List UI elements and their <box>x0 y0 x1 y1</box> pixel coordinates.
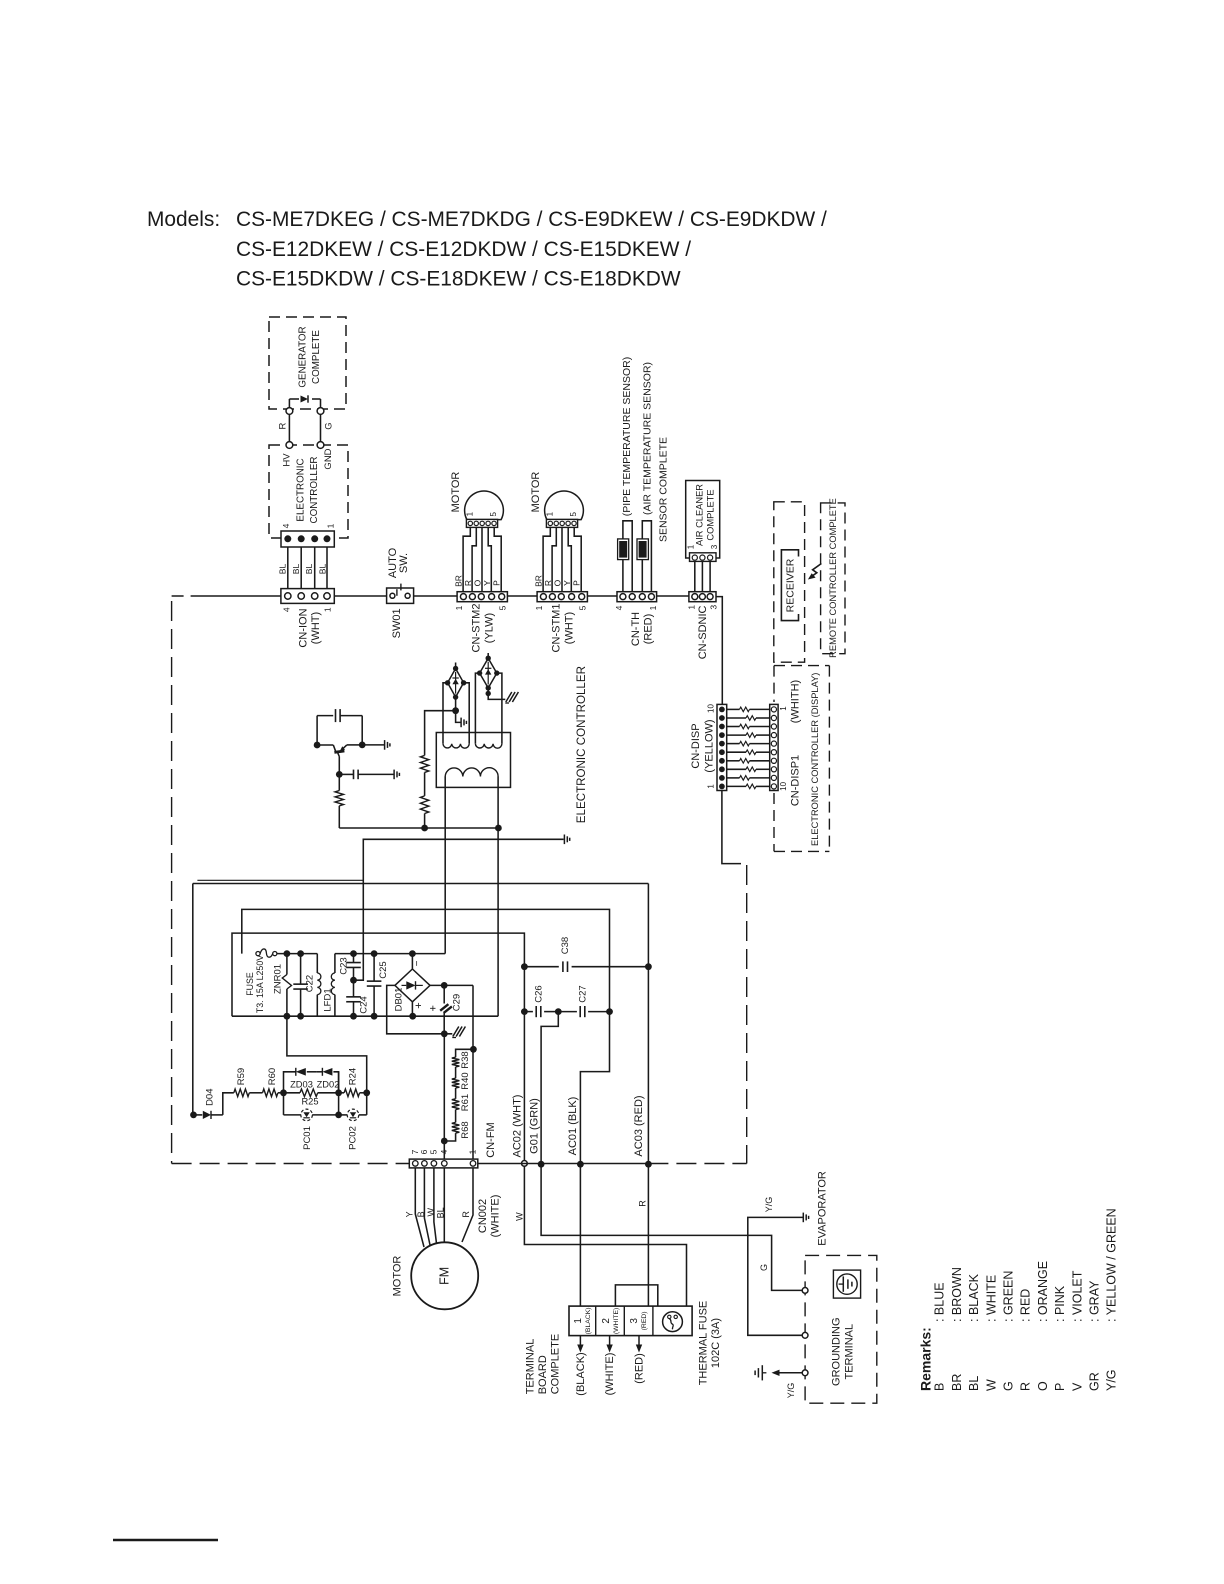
air thermistor body <box>637 539 648 560</box>
wire generator left pin <box>288 399 290 408</box>
svg-text:CN-DISP1: CN-DISP1 <box>789 755 801 806</box>
wire AC01 to terminal 1 <box>579 1164 581 1306</box>
svg-text:: VIOLET: : VIOLET <box>1070 1270 1084 1322</box>
svg-text:BL: BL <box>291 564 301 575</box>
svg-text:1: 1 <box>454 605 464 610</box>
diode bridge DB01 <box>411 954 413 969</box>
svg-text:R: R <box>1019 1382 1033 1391</box>
transformer primary winding left <box>443 744 469 748</box>
wire DB01 output down to CN-FM pin1 <box>472 985 474 1163</box>
svg-text:Y/G: Y/G <box>786 1383 796 1399</box>
svg-text:1: 1 <box>707 784 716 789</box>
wire AC03 R to terminal 3 <box>647 1164 649 1306</box>
svg-text:3: 3 <box>708 605 718 610</box>
wire DB01 negative input loop <box>387 985 453 1033</box>
svg-text:R: R <box>278 422 289 429</box>
svg-text:1: 1 <box>326 523 336 528</box>
svg-text:SENSOR COMPLETE: SENSOR COMPLETE <box>658 437 670 542</box>
svg-text:BL: BL <box>278 564 288 575</box>
svg-text:(WHT): (WHT) <box>310 612 322 644</box>
svg-text:(WHITE): (WHITE) <box>613 1308 620 1334</box>
electronic controller boundary dashed bottom edge right <box>648 1163 746 1165</box>
node A junction <box>280 1089 287 1096</box>
connector CN-FM <box>409 1159 478 1168</box>
svg-text:W: W <box>984 1379 998 1391</box>
svg-text:SW.: SW. <box>398 553 410 573</box>
node AC01 junction <box>577 1161 584 1168</box>
svg-text:CS-ME7DKEG / CS-ME7DKDG / CS-E: CS-ME7DKEG / CS-ME7DKDG / CS-E9DKEW / CS… <box>236 208 827 231</box>
wire CN-DISP bottom exit <box>722 791 741 864</box>
wire AC input upper <box>242 909 610 1011</box>
svg-text:: GRAY: : GRAY <box>1088 1280 1102 1322</box>
wire cap loop left leg <box>316 716 318 745</box>
terminal circle GND <box>317 442 324 449</box>
svg-text:: BROWN: : BROWN <box>950 1267 964 1322</box>
svg-text:ELECTRONIC CONTROLLER (DISPLAY: ELECTRONIC CONTROLLER (DISPLAY) <box>810 673 820 846</box>
capacitor feedback loop top <box>317 715 333 717</box>
terminal circle Y/G lower <box>802 1370 808 1376</box>
resistor R61 <box>452 1099 460 1110</box>
svg-text:CN-STM1: CN-STM1 <box>550 604 562 653</box>
lead arrow terminal 2 (WHITE) <box>609 1336 611 1348</box>
svg-text:(RED): (RED) <box>634 1353 646 1384</box>
svg-text:CS-E15DKDW / CS-E18DKEW / CS-E: CS-E15DKDW / CS-E18DKEW / CS-E18DKDW <box>236 268 681 291</box>
svg-text:R59: R59 <box>236 1068 247 1085</box>
svg-text:R: R <box>543 580 553 586</box>
wire Y/G to evaporator ground <box>748 1217 803 1335</box>
resistor below transistor <box>338 774 340 790</box>
svg-text:Y/G: Y/G <box>764 1197 774 1213</box>
wire G to grounding terminal <box>541 1164 802 1290</box>
svg-text:1: 1 <box>687 544 696 549</box>
main bus wire CN-STM1 to CN-TH <box>587 595 617 597</box>
svg-text:W: W <box>515 1212 525 1221</box>
wire cap loop right leg <box>361 716 363 745</box>
wire chain bottom to pin4 line <box>444 1133 455 1141</box>
svg-text:BOARD: BOARD <box>537 1355 549 1394</box>
terminal circle G <box>802 1288 808 1294</box>
diode inside generator (ionizer discharge) <box>289 398 299 400</box>
wire fan motor BL <box>443 1168 445 1243</box>
capacitor C24 <box>353 980 355 997</box>
svg-text:(BLACK): (BLACK) <box>575 1352 587 1395</box>
node G01 junction <box>538 1161 545 1168</box>
wire bridge2 left to winding <box>475 673 479 744</box>
pipe temperature sensor loop <box>623 521 632 592</box>
svg-text:AC03 (RED): AC03 (RED) <box>633 1095 645 1156</box>
wire BL pin4 <box>287 547 289 593</box>
wire motor pin3 O <box>561 527 563 591</box>
wire generator right pin <box>320 399 322 408</box>
ground (transistor emitter) <box>384 740 386 750</box>
ground (snubber) <box>563 835 565 845</box>
optocoupler LED PC01 <box>301 1109 313 1121</box>
wire node to ground stub <box>456 711 461 723</box>
wire secondary right leg <box>497 777 499 1017</box>
svg-text:P: P <box>1053 1383 1067 1391</box>
svg-text:R61: R61 <box>460 1094 471 1111</box>
svg-text:ZD02: ZD02 <box>317 1080 340 1090</box>
wire bridge1 left to winding <box>443 683 448 744</box>
svg-text:D04: D04 <box>204 1088 215 1105</box>
svg-text:: RED: : RED <box>1019 1289 1033 1322</box>
wire pcb left edge to D04 <box>190 1112 197 1119</box>
wire W to thermal fuse <box>524 1166 686 1320</box>
wire AC02 (WHT) <box>523 967 525 1161</box>
resistor chain feed wire <box>456 1049 474 1057</box>
ground (bridge1 node) <box>460 718 462 728</box>
capacitor C26 <box>521 1008 528 1015</box>
resistor link wires CN-DISP to CN-DISP1 <box>727 708 740 710</box>
svg-text:Y/G: Y/G <box>1105 1369 1119 1391</box>
wire G01 (GRN) <box>541 1012 558 1165</box>
svg-text:Models:: Models: <box>147 208 220 231</box>
svg-text:+: + <box>413 1002 425 1008</box>
svg-text:1: 1 <box>648 605 658 610</box>
wireless signal arrow <box>811 564 822 578</box>
svg-text:: GREEN: : GREEN <box>1002 1271 1016 1322</box>
wire CN-SDNIC to display feed <box>716 597 722 705</box>
svg-text:(BLACK): (BLACK) <box>585 1307 592 1334</box>
svg-text:CN-SDNIC: CN-SDNIC <box>697 605 709 659</box>
ground (evaporator) <box>802 1213 804 1223</box>
svg-text:5: 5 <box>429 1149 439 1154</box>
svg-text:ELECTRONIC CONTROLLER: ELECTRONIC CONTROLLER <box>575 666 588 823</box>
svg-text:10: 10 <box>779 781 788 790</box>
terminal circle generator R <box>286 408 293 415</box>
svg-text:O: O <box>1036 1381 1050 1391</box>
svg-text:RECEIVER: RECEIVER <box>785 558 797 612</box>
generator complete dashed enclosure <box>269 317 346 409</box>
svg-text:R: R <box>463 580 473 586</box>
connector CN-ION (WHT) <box>281 589 334 604</box>
svg-text:C22: C22 <box>305 975 316 992</box>
wire fan motor W <box>434 1168 437 1244</box>
svg-text:LFD1: LFD1 <box>322 988 333 1011</box>
pcb outline left edge <box>192 884 194 1115</box>
footer rule <box>113 1539 218 1542</box>
svg-text:CN002: CN002 <box>477 1199 489 1233</box>
electronic controller display dashed enclosure <box>774 665 829 667</box>
svg-text:MOTOR: MOTOR <box>450 472 462 513</box>
wire thermal fuse to terminal 2 <box>615 1285 662 1320</box>
electronic controller boundary dashed left edge <box>171 601 173 1164</box>
main bus wire bottom solid segment <box>478 1163 649 1165</box>
svg-text:G01 (GRN): G01 (GRN) <box>528 1098 540 1154</box>
line filter choke LFD1 winding left <box>316 954 318 973</box>
svg-text:−: − <box>412 960 423 966</box>
wires air cleaner to CN-SDNIC <box>694 561 696 591</box>
terminal board complete box <box>569 1306 692 1336</box>
wire secondary left leg <box>444 777 446 954</box>
wire ground lead with arrow <box>777 1372 803 1374</box>
svg-text:1: 1 <box>546 511 555 516</box>
zener diode ZD03 <box>295 1068 297 1076</box>
node B junction <box>335 1089 342 1096</box>
terminal circle generator G <box>317 408 324 415</box>
wire fan motor Y <box>415 1168 424 1247</box>
svg-text:CN-TH: CN-TH <box>630 612 642 646</box>
air cleaner connector <box>690 553 717 562</box>
wire motor pin4 Y <box>568 527 571 591</box>
svg-text:AIR CLEANER: AIR CLEANER <box>694 484 704 546</box>
remote controller complete dashed enclosure <box>821 503 845 654</box>
wire motor pin5 P <box>494 527 501 591</box>
air cleaner complete box <box>686 481 720 559</box>
pipe thermistor body <box>618 539 629 560</box>
svg-text:BL: BL <box>304 564 314 575</box>
wire G generator to controller <box>320 414 322 441</box>
transformer primary winding right <box>475 744 502 748</box>
svg-text:(PIPE TEMPERATURE SENSOR): (PIPE TEMPERATURE SENSOR) <box>621 357 633 516</box>
capacitor C22 <box>300 954 302 985</box>
svg-text:5: 5 <box>578 605 588 610</box>
ground symbol box <box>833 1270 860 1298</box>
svg-text:1: 1 <box>534 605 544 610</box>
fuse FUSE T3.15A L250V <box>256 952 260 956</box>
resistor R40 <box>452 1078 460 1088</box>
wire motor pin4 Y <box>488 527 491 591</box>
svg-text:3: 3 <box>629 1318 640 1324</box>
svg-text:C27: C27 <box>577 985 588 1002</box>
capacitor at transistor base node <box>336 771 343 778</box>
svg-text:B: B <box>416 1211 426 1217</box>
wire C29 node down to CN-FM pin4 <box>443 1034 445 1164</box>
svg-text:3: 3 <box>710 544 719 549</box>
svg-text:(WHITE): (WHITE) <box>490 1195 502 1238</box>
svg-text:R24: R24 <box>348 1068 359 1085</box>
capacitor C38 <box>524 966 558 968</box>
svg-text:R38: R38 <box>460 1051 471 1068</box>
motor dome (CN-STM1) <box>545 491 584 520</box>
lead arrow terminal 1 (BLACK) <box>579 1336 581 1348</box>
wire motor pin5 P <box>574 527 581 591</box>
svg-text:O: O <box>473 579 483 586</box>
svg-text:BL: BL <box>436 1207 446 1218</box>
wire motor pin1 BR <box>463 527 470 591</box>
wire fan motor R <box>462 1168 473 1242</box>
wire AC03 (RED) <box>647 967 649 1164</box>
wire fan motor B <box>424 1168 430 1245</box>
wire oscillator to transformer taps <box>339 827 498 829</box>
svg-text:EVAPORATOR: EVAPORATOR <box>817 1171 829 1246</box>
pcb outline top edge <box>193 883 649 885</box>
svg-text:DB01: DB01 <box>393 988 404 1012</box>
optocoupler LED PC02 <box>339 1114 348 1116</box>
connector CN-ION board side <box>281 531 334 547</box>
svg-text:SW01: SW01 <box>391 608 403 638</box>
svg-text:R: R <box>461 1211 471 1218</box>
wire DB01 positive output <box>430 984 473 986</box>
connector CN-DISP1 (WHITH) <box>770 704 778 790</box>
svg-text:R60: R60 <box>267 1068 278 1085</box>
wire AC03 feed right edge <box>647 884 649 967</box>
terminal circle HV <box>286 442 293 449</box>
main bus wire CN-ION to SW01 <box>334 595 386 597</box>
svg-text:5: 5 <box>489 511 498 516</box>
resistor R59 <box>234 1089 250 1097</box>
main bus wire CN-STM2 to CN-STM1 <box>507 595 537 597</box>
svg-text:: WHITE: : WHITE <box>984 1275 998 1322</box>
diode D04 <box>203 1111 211 1119</box>
svg-text:1: 1 <box>466 511 475 516</box>
svg-text:: PINK: : PINK <box>1053 1285 1067 1322</box>
thermal fuse bulb <box>663 1312 683 1332</box>
svg-text:CN-DISP: CN-DISP <box>690 723 702 768</box>
svg-text:: YELLOW / GREEN: : YELLOW / GREEN <box>1105 1208 1119 1322</box>
wire bridge1 bottom node <box>455 697 457 711</box>
svg-text:V: V <box>1070 1382 1084 1391</box>
capacitor C27 <box>558 1011 577 1013</box>
svg-text:GROUNDING: GROUNDING <box>831 1317 843 1385</box>
diode bridge 2 (stepping motor driver) <box>487 653 489 658</box>
resistor R68 <box>452 1122 460 1133</box>
wire bridge1 right to winding <box>464 683 470 744</box>
bottom rail <box>232 1015 498 1017</box>
svg-text:BL: BL <box>317 564 327 575</box>
node AC02 open circle <box>522 1161 528 1167</box>
svg-text:(AIR TEMPERATURE SENSOR): (AIR TEMPERATURE SENSOR) <box>641 362 653 515</box>
top rail choke to DB01 <box>335 953 445 955</box>
svg-text:G: G <box>1002 1381 1016 1391</box>
wire BL pin1 <box>326 547 328 593</box>
svg-text:4: 4 <box>614 605 624 610</box>
svg-text:: ORANGE: : ORANGE <box>1036 1261 1050 1322</box>
svg-text:5: 5 <box>569 511 578 516</box>
node AC03 junction <box>645 1161 652 1168</box>
svg-text:R40: R40 <box>460 1072 471 1089</box>
wire D04 up to R59 <box>223 1093 234 1115</box>
wire motor pin3 O <box>481 527 483 591</box>
svg-text:: BLACK: : BLACK <box>967 1273 981 1322</box>
svg-text:REMOTE CONTROLLER COMPLETE: REMOTE CONTROLLER COMPLETE <box>828 498 838 658</box>
resistor divider to oscillator <box>424 814 426 829</box>
svg-text:GND: GND <box>323 448 334 469</box>
svg-text:ELECTRONIC: ELECTRONIC <box>296 458 307 521</box>
svg-text:COMPLETE: COMPLETE <box>706 489 716 540</box>
svg-text:1: 1 <box>779 706 788 711</box>
resistor R60 <box>263 1089 278 1097</box>
varistor ZNR01 <box>286 954 288 975</box>
ground (base capacitor) <box>393 770 395 780</box>
wire C23/C24 node to ground rail <box>354 839 564 980</box>
svg-text:10: 10 <box>707 704 716 713</box>
connector CN-STM2 <box>457 592 507 602</box>
chassis ground (DB01 output) <box>453 1027 459 1037</box>
transformer T01 core box <box>436 733 510 788</box>
svg-text:Y: Y <box>404 1211 414 1217</box>
svg-text:102C (3A): 102C (3A) <box>710 1318 722 1368</box>
svg-text:R25: R25 <box>301 1097 318 1107</box>
svg-text:(WHITH): (WHITH) <box>789 680 801 723</box>
main bus wire CN-TH to CN-SDNIC <box>657 595 689 597</box>
chassis ground (bridge2) <box>506 692 512 702</box>
zener branch wire <box>284 1072 296 1093</box>
svg-text:(YLW): (YLW) <box>484 613 496 643</box>
svg-text:C29: C29 <box>452 994 463 1011</box>
connector CN-DISP (YELLOW) <box>717 704 727 790</box>
svg-text:BL: BL <box>967 1376 981 1391</box>
wire R24 node to supply rail <box>287 1016 367 1115</box>
svg-text:5: 5 <box>498 605 508 610</box>
svg-text:AC01 (BLK): AC01 (BLK) <box>567 1097 579 1156</box>
svg-text:R: R <box>638 1200 648 1207</box>
svg-text:CS-E12DKEW / CS-E12DKDW / CS-E: CS-E12DKEW / CS-E12DKDW / CS-E15DKEW / <box>236 238 691 261</box>
svg-text:(YELLOW): (YELLOW) <box>704 719 716 772</box>
switch SW01 AUTO SW. <box>387 588 414 603</box>
svg-text:(WHITE): (WHITE) <box>604 1353 616 1396</box>
svg-text:4: 4 <box>281 523 291 528</box>
svg-text:ZNR01: ZNR01 <box>272 964 283 994</box>
svg-text:AC02 (WHT): AC02 (WHT) <box>512 1095 524 1158</box>
line filter choke LFD1 winding right <box>334 954 336 973</box>
svg-text:TERMINAL: TERMINAL <box>525 1339 537 1395</box>
svg-text:+: + <box>427 1005 439 1011</box>
svg-text:1: 1 <box>573 1318 584 1324</box>
electronic controller boundary dashed right edge <box>746 865 748 1164</box>
main bus wire segment left <box>172 595 201 597</box>
svg-text:1: 1 <box>323 607 333 612</box>
connector CN-STM1 <box>537 592 587 602</box>
wire AC input lower <box>232 933 524 1016</box>
wire R generator to controller <box>288 414 290 441</box>
wire stub above pcb edge <box>197 879 363 881</box>
svg-text:C26: C26 <box>533 985 544 1002</box>
svg-text:C24: C24 <box>359 996 370 1013</box>
svg-text:(WHT): (WHT) <box>564 612 576 644</box>
svg-text:C23: C23 <box>338 957 349 974</box>
lead arrow terminal 3 (RED) <box>638 1336 640 1348</box>
node R24 right junction <box>363 1089 370 1096</box>
svg-text:1: 1 <box>687 605 697 610</box>
svg-text:FUSE: FUSE <box>245 972 255 996</box>
wire motor pin1 BR <box>543 527 550 591</box>
svg-text:GENERATOR: GENERATOR <box>298 326 309 387</box>
svg-text:CN-FM: CN-FM <box>485 1122 497 1157</box>
connector CN-SDNIC <box>689 592 716 602</box>
svg-text:G: G <box>759 1264 769 1271</box>
transformer secondary winding <box>445 768 498 777</box>
svg-text:Remarks:: Remarks: <box>918 1327 934 1391</box>
svg-text:G: G <box>324 422 335 429</box>
top rail fuse to choke <box>277 953 317 955</box>
fan motor FM <box>411 1242 478 1309</box>
svg-text:COMPLETE: COMPLETE <box>550 1334 562 1395</box>
svg-text:C38: C38 <box>560 937 571 954</box>
air temperature sensor loop <box>642 521 651 592</box>
svg-text:2: 2 <box>601 1318 612 1324</box>
electronic controller dashed enclosure <box>269 445 348 538</box>
svg-text:B: B <box>933 1383 947 1391</box>
svg-text:O: O <box>553 579 563 586</box>
svg-text:C25: C25 <box>378 961 389 978</box>
svg-text:(RED): (RED) <box>642 614 654 645</box>
svg-text:THERMAL FUSE: THERMAL FUSE <box>697 1301 709 1386</box>
wire motor pin2 R <box>472 527 476 591</box>
svg-text:T3. 15A L250V: T3. 15A L250V <box>255 955 265 1013</box>
wire emitter to ground <box>362 744 384 746</box>
ground (external earth) <box>762 1372 766 1374</box>
svg-text:TERMINAL: TERMINAL <box>844 1324 856 1380</box>
svg-text:HV: HV <box>282 453 293 467</box>
receiver bracket frame <box>781 550 798 621</box>
electronic controller boundary dashed bottom edge left <box>172 1163 410 1165</box>
transistor Q (oscillator) <box>314 742 321 749</box>
svg-text:1: 1 <box>468 1149 478 1154</box>
wire AC01 (BLK) <box>580 1012 609 1165</box>
svg-text:P: P <box>492 580 502 586</box>
grounding terminal dashed box <box>805 1255 877 1403</box>
